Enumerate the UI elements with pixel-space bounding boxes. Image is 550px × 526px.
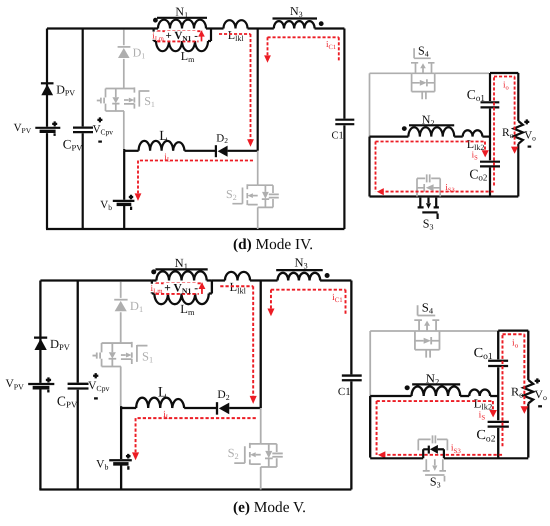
svg-text:L: L [159,129,168,144]
secondary N3 winding [278,273,321,281]
svg-text:(e) Mode V.: (e) Mode V. [233,499,306,516]
label +VN1- [165,31,197,41]
polarity dot N2 [402,126,407,131]
capacitor Co2 [480,162,500,167]
wire: grey S2 branch [260,408,262,444]
polarity dot N3 [325,273,330,278]
wire: left vertical black [368,137,370,197]
leakage inductor Llk2 [469,390,490,397]
label +VN1- [164,283,197,293]
transistor S2 (grey) with body diode and capacitor [248,185,258,204]
transistor S1 (grey) with body diode and capacitor [106,89,135,112]
transistor S2 (grey) with body diode and capacitor [250,444,260,464]
transistor S4 (grey) with body diode and capacitor [418,305,436,315]
wire: top rail [40,279,351,281]
diode D1 (grey) [114,299,127,301]
wire: top rail [47,27,344,29]
diode D1 (grey) [118,46,131,48]
battery Vb [123,151,125,229]
wire: grey S4 feed wires [370,330,497,332]
svg-text:+ VN1 -: + VN1 - [166,30,199,43]
inductor Lm (magnetizing) [152,292,212,294]
polarity dot N1 [151,269,156,274]
svg-text:+ VN1 -: + VN1 - [164,282,198,295]
wire: N2 to Llk2 [454,136,463,138]
red loop io [502,334,524,446]
red path iS into Co2 [377,401,493,410]
winding N2 [412,386,461,396]
output labels +Vo- [524,119,529,124]
battery VPV [28,383,54,385]
transistor S1 (grey) with body diode and capacitor [102,343,132,366]
transformer primary N1 winding [152,281,212,294]
wire: bottom rail [46,228,344,230]
output labels +Vo- [535,378,540,383]
diode DPV [34,337,47,339]
red loop io [494,77,515,186]
leakage inductor Llkl [225,272,250,281]
capacitor Co1 branch [489,73,491,160]
wire: N2 feed [370,136,409,138]
red loop iLm inside N1 [156,283,203,294]
battery Vb [120,408,122,490]
core bar N2 [409,124,454,126]
current label iLm [151,32,163,40]
wire: bottom rail [39,488,351,490]
diode D2 [215,145,217,157]
node: S1 to L junction [123,149,125,151]
leakage inductor Llkl [224,20,248,28]
wire: Llk2 to C branch [490,395,498,397]
capacitor Co1 branch [497,331,499,421]
transformer core bar [155,268,207,270]
transformer primary N1 winding [154,29,211,42]
svg-text:C1: C1 [338,387,351,398]
wire: left vertical black [369,396,371,458]
wire: bottom rail [370,195,519,197]
wire: Llk2 to C branch [482,136,490,138]
wire: output box top [490,72,518,74]
wire: left rail vertical [39,281,41,490]
red current indicator down T-branch [268,37,339,61]
transformer core bar [157,17,207,19]
polarity dot N1 [153,18,158,23]
transistor S3 box (grey) with capacitor [418,439,447,450]
leakage inductor Llk2 [463,130,483,136]
transistor S3 channel (grey, off) [426,459,443,470]
capacitor CPV [77,281,79,490]
wire: left rail vertical [46,29,48,230]
wire: N2 feed [370,395,411,397]
red path iS3 loop [376,142,495,192]
wire: bottom rail with jog through S3 body diode [370,449,528,458]
wire: grey D1/S1 branch [123,30,125,150]
core bar N3 [273,17,318,19]
capacitor C1 branch [343,29,345,230]
wire: grey left vertical [369,73,371,136]
red loop iLm inside N1 [157,31,202,41]
red path iL with arrows [136,418,256,452]
core bar N2 [412,383,460,385]
inductor L [124,150,138,152]
wire: L to D2 [184,407,217,409]
battery VPV [35,127,60,129]
wire: T-branch vertical [257,29,259,151]
transistor S4 (grey) with body diode and capacitor [414,48,431,58]
diode body of S3 (black, conducting) [428,446,430,454]
core bar N3 [276,269,323,271]
resistor Ro zigzag [523,380,533,403]
wire: L to D2 [185,150,216,152]
node: S1 to L junction [120,406,122,408]
inductor L [121,407,136,409]
transistor S3 body (grey box with diode and capacitor) [417,178,440,196]
node label VCpv [93,373,98,378]
red path: N1 to junction feeder with arrow [219,34,251,140]
diode D2 [216,402,218,415]
current label iLm [149,284,162,293]
red path iS into Co2 [376,142,486,151]
wire: N2 to Llk2 [460,395,469,397]
wire: output box top [498,330,528,332]
wire: grey left vertical [369,331,371,396]
svg-text:(d) Mode IV.: (d) Mode IV. [233,236,313,253]
winding N2 [408,127,454,136]
svg-text:C1: C1 [332,130,344,141]
red path iL with arrows [138,161,253,194]
wire: grey D1/S1 branch [120,282,122,407]
red path iS3 loop [377,401,503,455]
polarity dot N3 [319,21,324,26]
node label VCpv [97,117,102,122]
diode DPV [41,82,54,84]
transistor S3 gate side (black, conducting) [420,198,436,207]
capacitor CPV [82,29,84,230]
wire: output right vertical [527,331,529,380]
polarity dot N2 [405,385,410,390]
wire: T-branch vertical [260,281,262,408]
wire: output right vertical [517,73,519,121]
capacitor C1 branch [350,281,352,490]
capacitor Co2 [488,422,509,427]
wire: grey S2 branch [257,151,259,185]
red path: N1 to junction feeder with arrow [220,286,253,396]
svg-text:L: L [158,385,167,401]
secondary N3 winding [274,21,315,28]
wire: grey S4 feed wires [370,72,490,74]
resistor Ro zigzag [514,121,523,144]
red current indicator down T-branch [271,290,346,315]
inductor Lm (magnetizing) [154,40,211,42]
